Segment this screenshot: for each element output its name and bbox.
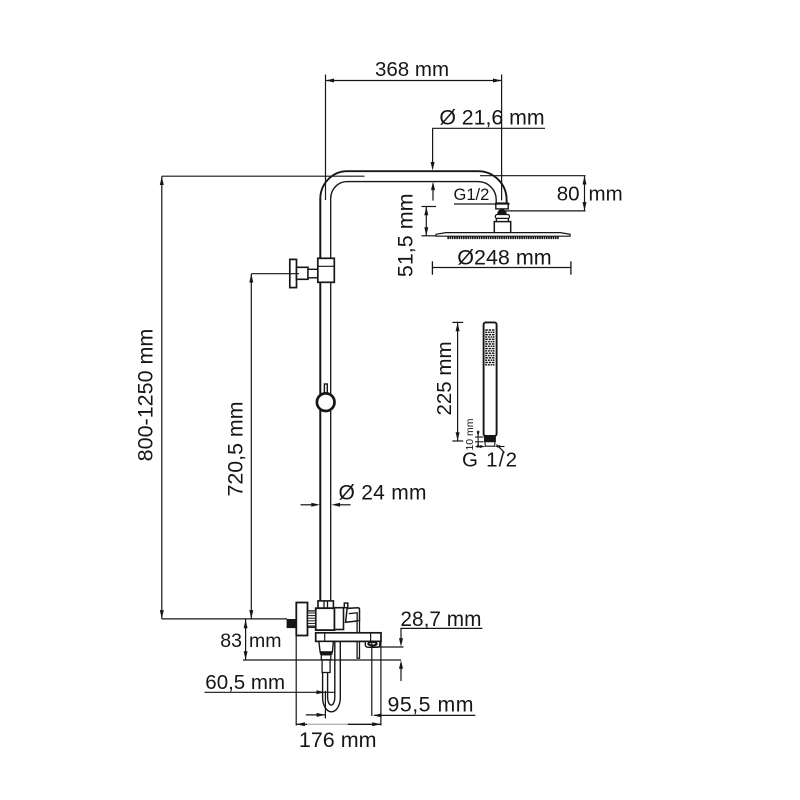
svg-text:800-1250 mm: 800-1250 mm <box>134 329 158 462</box>
dimension 51,5 mm <box>422 207 437 237</box>
svg-text:720,5 mm: 720,5 mm <box>224 401 248 496</box>
dimension 10 mm <box>475 431 484 448</box>
wand spray face <box>485 329 494 365</box>
mixer body <box>316 608 335 630</box>
shower head plate <box>436 233 570 237</box>
dimension 80 mm <box>480 176 586 211</box>
head connector ball joint <box>497 209 507 215</box>
mixer wall flange <box>296 603 307 636</box>
head connector nut <box>496 203 508 209</box>
svg-text:mm: mm <box>589 183 623 206</box>
diverter knob <box>365 641 380 647</box>
wall bracket spacer <box>308 269 318 278</box>
wand cap <box>484 436 496 441</box>
svg-text:mm: mm <box>249 630 282 652</box>
wall bracket flange <box>290 259 297 287</box>
wall bracket arm <box>297 267 309 279</box>
slider ring <box>317 393 335 411</box>
head connector base <box>494 222 510 233</box>
spout outlet <box>319 641 334 652</box>
ribbed nipple <box>308 611 316 627</box>
svg-text:Ø248 mm: Ø248 mm <box>457 246 551 270</box>
svg-text:Ø 21,6 mm: Ø 21,6 mm <box>439 106 544 130</box>
dimension 176 mm <box>296 636 381 726</box>
mixer cartridge <box>335 608 344 630</box>
head connector ring 1 <box>495 215 509 219</box>
svg-text:G 1/2: G 1/2 <box>462 449 517 472</box>
svg-text:60,5 mm: 60,5 mm <box>205 671 285 694</box>
svg-text:80: 80 <box>557 183 580 206</box>
label G 1/2 lower <box>476 446 505 448</box>
riser pipe <box>320 199 330 602</box>
escutcheon plate <box>316 633 381 642</box>
mixer collar <box>318 601 333 608</box>
lever pin <box>344 603 348 608</box>
svg-text:83: 83 <box>220 630 242 652</box>
wand leader line <box>496 445 504 453</box>
lever blade <box>357 621 359 659</box>
hand shower wand <box>484 322 497 436</box>
aerator band <box>320 651 333 654</box>
wall anchor block <box>287 619 297 628</box>
dimension 95,5 mm <box>372 642 476 716</box>
svg-text:225 mm: 225 mm <box>433 341 456 415</box>
dimension 83 mm <box>243 619 401 660</box>
hose loop <box>323 642 341 712</box>
dimension 800-1250 mm <box>162 176 365 619</box>
hand shower grip upper <box>321 655 331 660</box>
wand thread <box>485 442 495 447</box>
svg-text:51,5 mm: 51,5 mm <box>393 193 417 277</box>
svg-text:368 mm: 368 mm <box>375 58 449 81</box>
svg-text:10 mm: 10 mm <box>464 418 476 450</box>
dimension 60,5 mm <box>205 691 336 719</box>
wall bracket clamp <box>318 258 335 282</box>
slider knob <box>324 384 327 394</box>
dimension 28,7 mm <box>372 628 483 681</box>
hand shower grip lower <box>322 660 330 673</box>
dimension diameter 24 mm <box>301 504 351 506</box>
dimension diameter 248 mm <box>432 261 571 274</box>
svg-text:95,5 mm: 95,5 mm <box>388 693 474 717</box>
head connector ring 2 <box>496 218 508 221</box>
svg-text:176 mm: 176 mm <box>299 728 377 752</box>
shower arm <box>320 171 506 203</box>
svg-text:G1/2: G1/2 <box>454 186 490 204</box>
shower head spray teeth <box>447 236 558 239</box>
dimension diameter 21,6 mm <box>432 128 545 200</box>
dimension 368 mm <box>326 75 502 201</box>
svg-text:28,7 mm: 28,7 mm <box>400 608 481 631</box>
dimension 720,5 mm <box>251 274 299 619</box>
dimension 225 mm <box>452 322 463 441</box>
svg-text:Ø 24 mm: Ø 24 mm <box>339 482 427 505</box>
lever handle <box>346 608 360 623</box>
